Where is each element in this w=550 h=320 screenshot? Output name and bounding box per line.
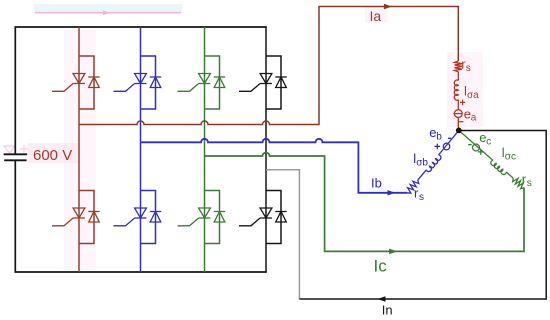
GTO thyristor lower phase a bbox=[73, 208, 85, 218]
wire bbox=[457, 118, 459, 131]
arrow In bbox=[378, 297, 385, 302]
minus sign phase b bbox=[448, 137, 451, 139]
inductor l_sigma_a bbox=[454, 80, 458, 100]
switch cell lower phase b: loop bbox=[141, 191, 156, 244]
antiparallel diode upper phase b bbox=[150, 76, 161, 78]
wire bbox=[457, 72, 459, 81]
EMF source e_a (circle) bbox=[454, 110, 462, 118]
wire left rail top (DC bus +) bbox=[15, 27, 266, 154]
gate lead upper phase b bbox=[114, 84, 135, 92]
wire leg phase a (red) bbox=[78, 27, 80, 272]
svg-text:b: b bbox=[436, 131, 442, 142]
switch cell upper phase a: loop bbox=[79, 56, 94, 109]
GTO thyristor upper phase c bbox=[199, 74, 211, 84]
minus sign phase a bbox=[459, 121, 464, 123]
resistor rs phase c bbox=[513, 178, 524, 189]
wire phase b output with hops bbox=[141, 139, 408, 193]
GTO thyristor upper neutral leg bbox=[260, 74, 272, 84]
wire phase c output with hop, down, bottom run, up bbox=[205, 153, 525, 252]
svg-text:Ib: Ib bbox=[371, 176, 382, 191]
svg-text:600 V: 600 V bbox=[33, 147, 72, 164]
antiparallel diode lower neutral leg bbox=[275, 211, 286, 213]
svg-text:c: c bbox=[486, 137, 491, 148]
EMF source e_c (circle) bbox=[473, 144, 480, 151]
arrow Ic bbox=[389, 249, 396, 254]
svg-text:Ia: Ia bbox=[370, 8, 382, 24]
gate lead upper phase c bbox=[178, 84, 199, 92]
antiparallel diode lower phase c bbox=[214, 211, 225, 213]
gate lead lower phase b bbox=[114, 218, 135, 226]
resistor rs phase b bbox=[407, 180, 419, 193]
switch cell upper neutral leg: loop bbox=[266, 56, 281, 109]
svg-text:s: s bbox=[466, 63, 471, 74]
svg-text:Ic: Ic bbox=[374, 256, 388, 275]
switch cell lower phase c: loop bbox=[205, 191, 220, 244]
gate lead upper phase a bbox=[52, 84, 73, 92]
plus sign phase c bbox=[478, 149, 484, 155]
gate lead lower phase c bbox=[178, 218, 199, 226]
GTO thyristor upper phase b bbox=[135, 74, 147, 84]
DC source 600 V (capacitor symbol) bbox=[4, 153, 28, 155]
node star point bbox=[456, 127, 462, 133]
switch cell lower phase a: loop bbox=[79, 191, 94, 244]
svg-text:s: s bbox=[419, 192, 424, 203]
antiparallel diode upper phase c bbox=[214, 76, 225, 78]
plus sign phase b bbox=[435, 144, 441, 150]
antiparallel diode lower phase a bbox=[88, 211, 99, 213]
GTO thyristor lower phase b bbox=[135, 208, 147, 218]
gate lead upper neutral leg bbox=[239, 84, 260, 92]
inductor l_sigma_b bbox=[426, 155, 441, 172]
antiparallel diode lower phase b bbox=[150, 211, 161, 213]
GTO thyristor upper phase a bbox=[73, 74, 85, 84]
wire bbox=[457, 100, 459, 110]
gate lead lower neutral leg bbox=[239, 218, 260, 226]
faint ghost near capacitor bbox=[4, 146, 15, 153]
resistor rs phase a bbox=[455, 61, 463, 72]
svg-text:σb: σb bbox=[416, 157, 428, 168]
svg-text:s: s bbox=[527, 178, 532, 189]
GTO thyristor lower phase c bbox=[199, 208, 211, 218]
wire left rail bottom (DC bus -) bbox=[15, 161, 266, 272]
arrow Ib bbox=[388, 191, 395, 196]
switch cell upper phase c: loop bbox=[205, 56, 220, 109]
inductor l_sigma_c bbox=[491, 160, 506, 174]
plus sign phase a bbox=[460, 100, 465, 105]
arrow Ia bbox=[384, 4, 391, 9]
wire leg neutral (black) bbox=[265, 27, 267, 272]
wire bbox=[506, 172, 513, 178]
switch cell upper phase b: loop bbox=[141, 56, 156, 109]
faint ghost band top-left bbox=[34, 4, 182, 13]
wire neutral return In bbox=[299, 131, 546, 300]
minus sign phase c bbox=[468, 144, 472, 146]
gate lead lower phase a bbox=[52, 218, 73, 226]
wire bbox=[439, 130, 459, 155]
wire leg phase c (green) bbox=[204, 27, 206, 272]
wire bbox=[418, 170, 427, 180]
GTO thyristor lower neutral leg bbox=[260, 208, 272, 218]
EMF source e_b (circle) bbox=[443, 143, 450, 150]
wire leg phase b (blue) bbox=[140, 27, 142, 272]
antiparallel diode upper phase a bbox=[88, 76, 99, 78]
svg-text:σa: σa bbox=[467, 90, 479, 101]
wire phase a output with hops, riser and top run bbox=[79, 7, 458, 125]
wire neutral leg link (gray) bbox=[266, 170, 299, 299]
wire bbox=[459, 130, 493, 160]
antiparallel diode upper neutral leg bbox=[275, 76, 286, 78]
svg-text:a: a bbox=[471, 112, 477, 123]
svg-text:σc: σc bbox=[505, 152, 516, 163]
svg-text:In: In bbox=[382, 303, 393, 318]
switch cell lower neutral leg: loop bbox=[266, 191, 281, 244]
